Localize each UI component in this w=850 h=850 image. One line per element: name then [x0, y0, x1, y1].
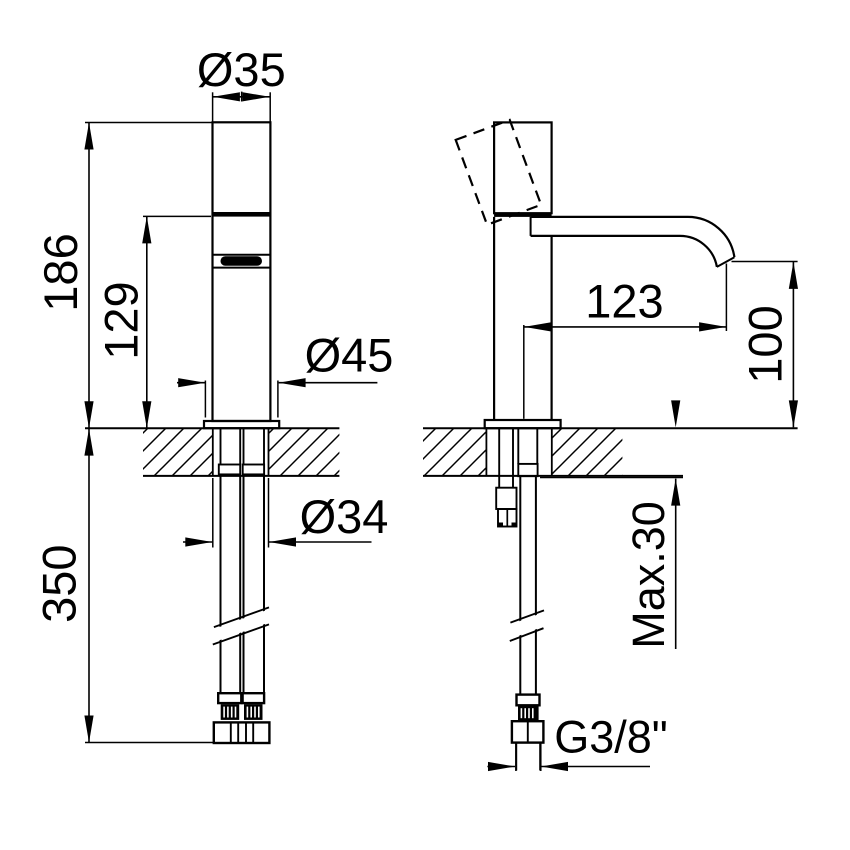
- svg-text:Ø35: Ø35: [197, 43, 286, 96]
- svg-text:129: 129: [95, 281, 148, 359]
- svg-text:350: 350: [33, 544, 86, 622]
- svg-text:186: 186: [34, 233, 87, 311]
- svg-text:Ø45: Ø45: [305, 329, 394, 382]
- svg-text:G3/8": G3/8": [554, 712, 668, 763]
- svg-text:Max.30: Max.30: [623, 501, 674, 649]
- svg-text:100: 100: [739, 305, 792, 383]
- svg-text:123: 123: [585, 275, 663, 328]
- svg-text:Ø34: Ø34: [300, 490, 389, 543]
